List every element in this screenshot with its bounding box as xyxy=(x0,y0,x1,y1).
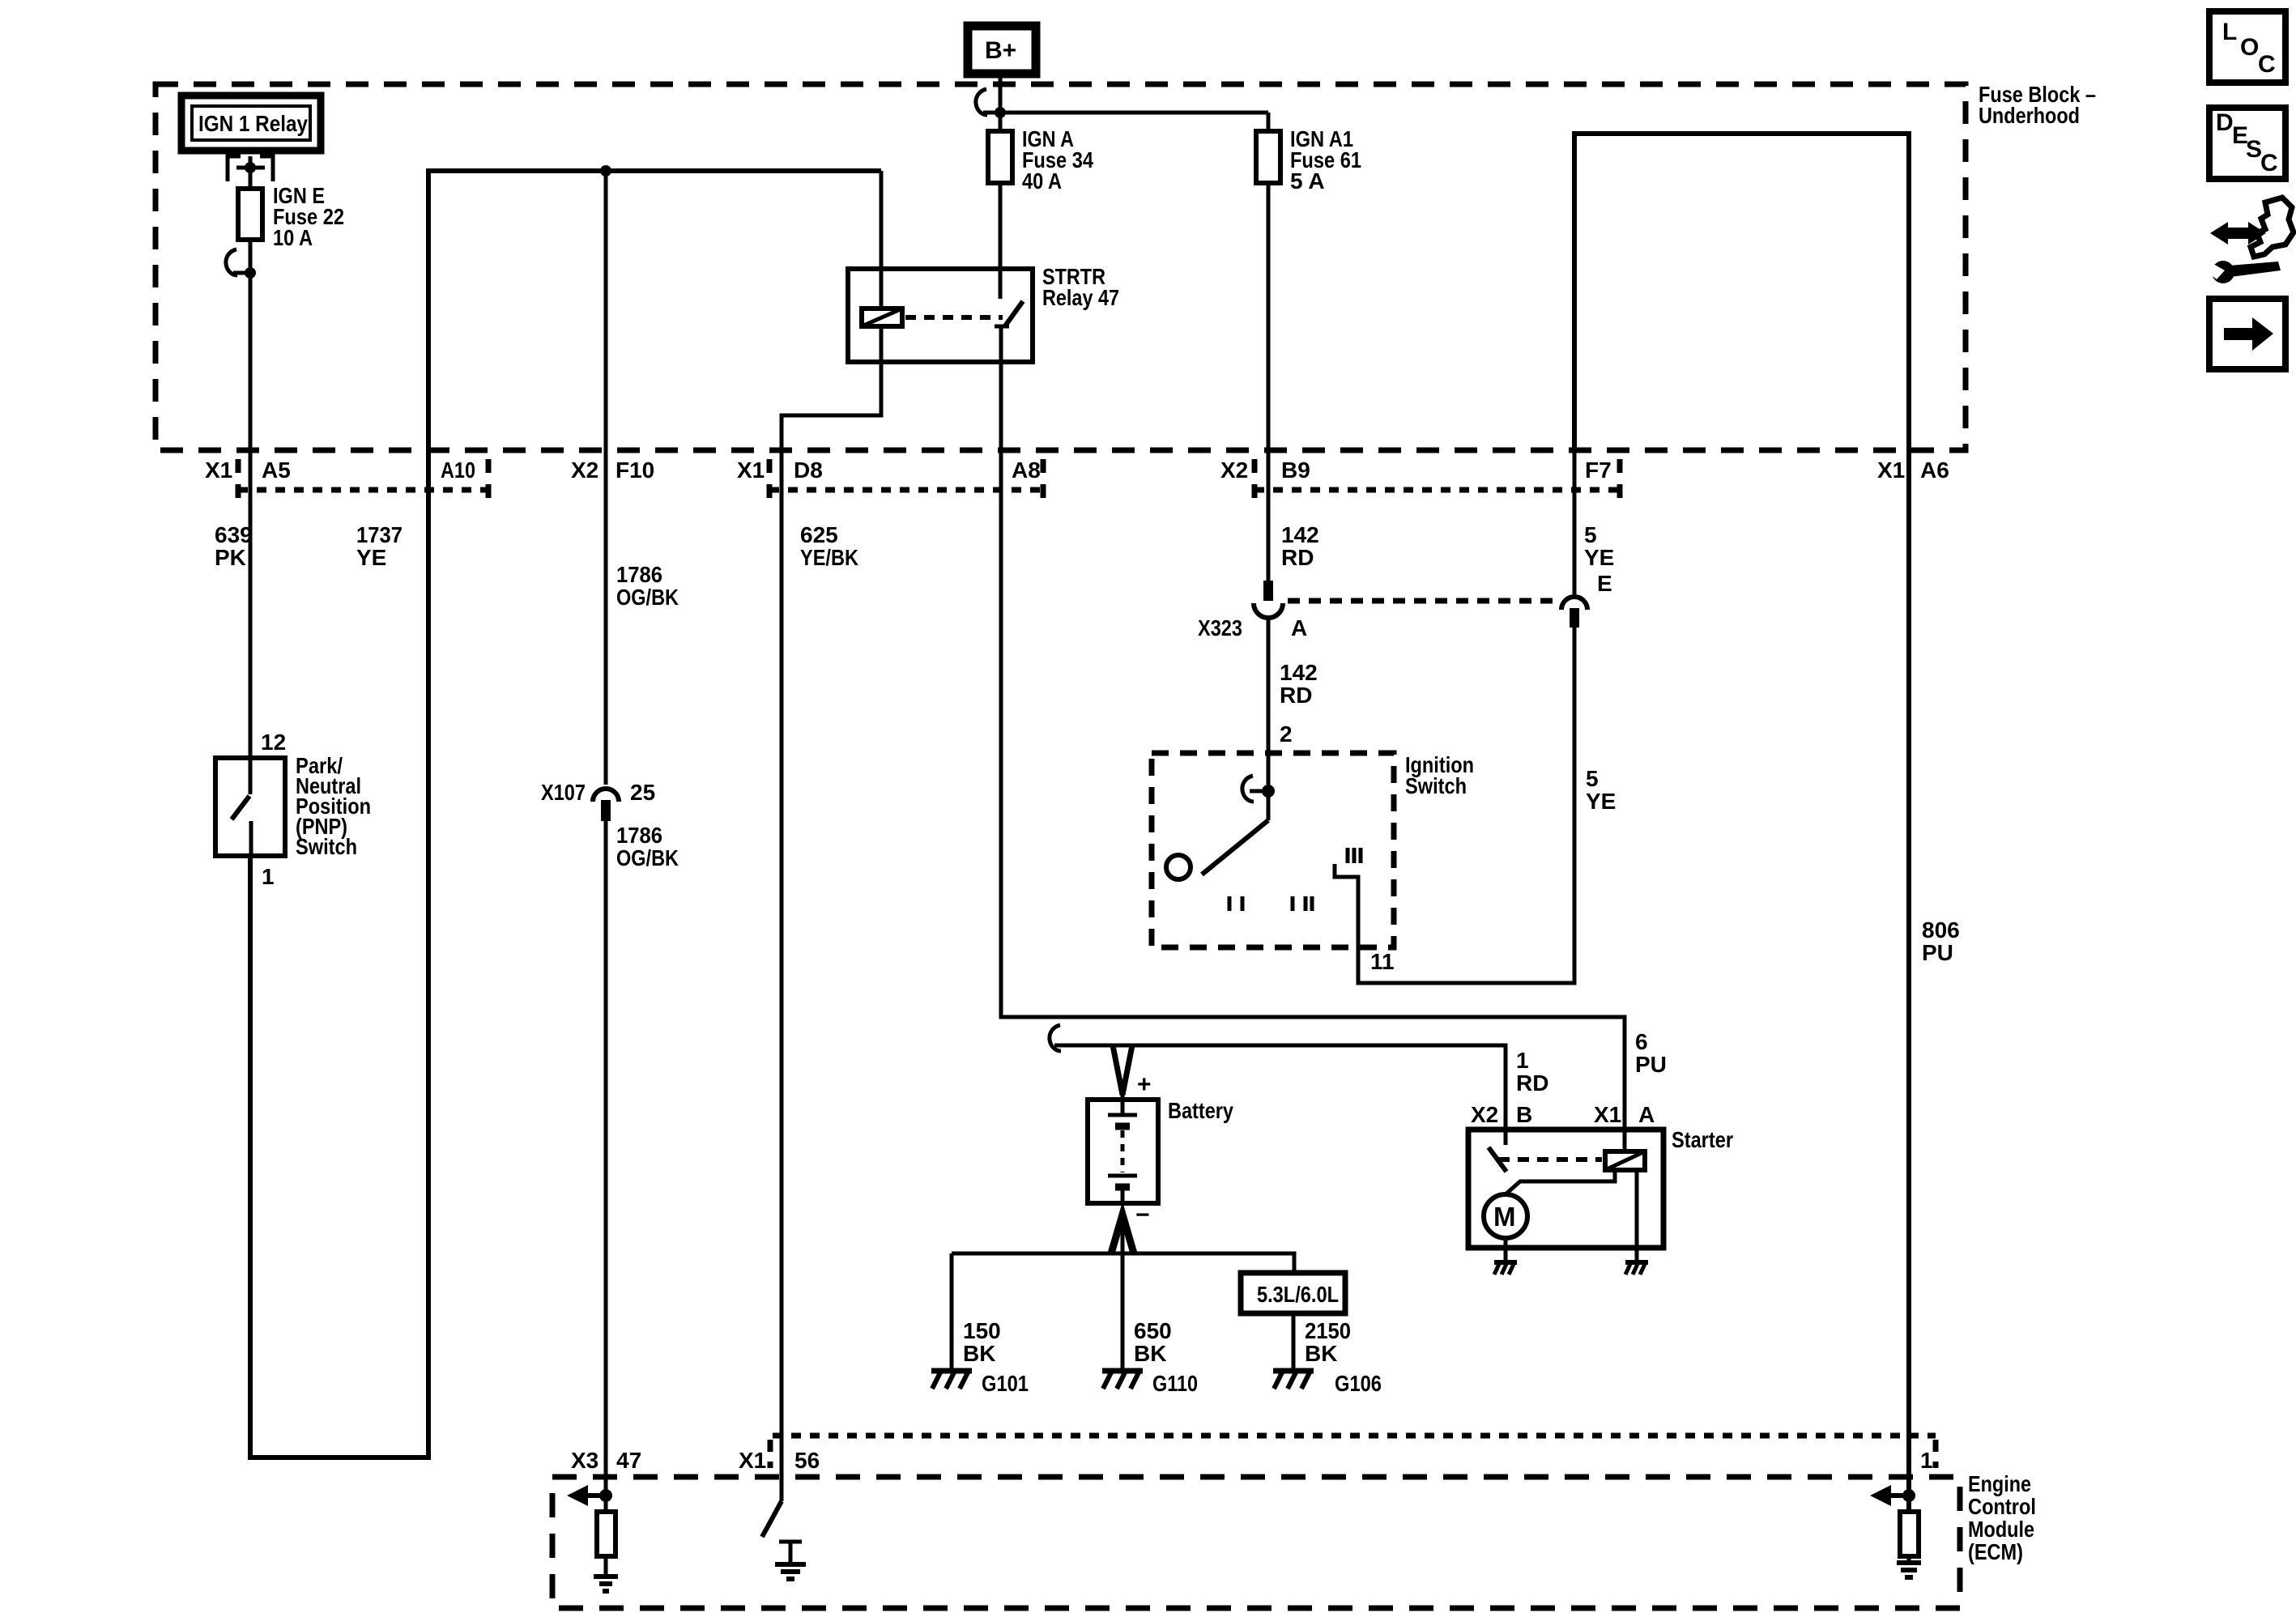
svg-text:Switch: Switch xyxy=(296,834,357,859)
svg-text:D: D xyxy=(2216,109,2234,136)
svg-text:+: + xyxy=(1137,1071,1152,1098)
svg-text:YE: YE xyxy=(1584,545,1614,570)
svg-text:Battery: Battery xyxy=(1168,1098,1233,1123)
svg-text:X2: X2 xyxy=(571,457,598,483)
svg-text:639: 639 xyxy=(215,522,253,547)
svg-text:S: S xyxy=(2246,136,2262,163)
svg-text:1: 1 xyxy=(1516,1048,1529,1073)
svg-text:A: A xyxy=(1291,615,1307,640)
svg-text:5: 5 xyxy=(1586,766,1599,791)
svg-text:Control: Control xyxy=(1968,1494,2036,1519)
svg-text:12: 12 xyxy=(261,730,286,755)
svg-text:X2: X2 xyxy=(1471,1102,1498,1127)
svg-text:1786: 1786 xyxy=(616,823,662,848)
svg-text:E: E xyxy=(1597,571,1612,596)
svg-text:806: 806 xyxy=(1922,917,1960,943)
svg-text:C: C xyxy=(2260,150,2278,177)
svg-text:PU: PU xyxy=(1922,940,1953,965)
svg-text:−: − xyxy=(1135,1202,1150,1228)
svg-text:X1: X1 xyxy=(1594,1102,1621,1127)
svg-text:5 A: 5 A xyxy=(1290,168,1325,194)
svg-text:RD: RD xyxy=(1280,683,1312,708)
svg-text:2: 2 xyxy=(1280,721,1293,747)
svg-text:1786: 1786 xyxy=(616,562,662,587)
svg-text:M: M xyxy=(1493,1202,1516,1232)
svg-text:A5: A5 xyxy=(262,457,291,483)
svg-text:56: 56 xyxy=(794,1448,820,1473)
svg-text:OG/BK: OG/BK xyxy=(616,585,679,610)
svg-text:Engine: Engine xyxy=(1968,1471,2031,1496)
svg-text:OG/BK: OG/BK xyxy=(616,845,679,870)
svg-text:1: 1 xyxy=(1920,1448,1933,1473)
svg-text:(ECM): (ECM) xyxy=(1968,1539,2023,1564)
svg-text:PK: PK xyxy=(215,545,246,570)
svg-text:40 A: 40 A xyxy=(1022,168,1062,194)
svg-text:YE: YE xyxy=(356,545,386,570)
svg-text:Relay 47: Relay 47 xyxy=(1042,285,1119,310)
svg-text:B+: B+ xyxy=(985,37,1016,64)
svg-text:D8: D8 xyxy=(794,457,823,483)
svg-text:G110: G110 xyxy=(1152,1371,1198,1396)
svg-text:A6: A6 xyxy=(1920,457,1949,483)
svg-text:X3: X3 xyxy=(571,1448,598,1473)
svg-text:G101: G101 xyxy=(982,1371,1029,1396)
svg-text:142: 142 xyxy=(1281,522,1319,547)
svg-text:X2: X2 xyxy=(1220,457,1248,483)
svg-text:F10: F10 xyxy=(616,457,654,483)
svg-text:G106: G106 xyxy=(1335,1371,1382,1396)
svg-text:L: L xyxy=(2222,19,2237,45)
svg-text:Underhood: Underhood xyxy=(1979,103,2080,128)
svg-text:1737: 1737 xyxy=(356,522,403,547)
svg-text:BK: BK xyxy=(963,1341,995,1366)
svg-text:O: O xyxy=(2240,34,2259,61)
svg-text:PU: PU xyxy=(1635,1052,1667,1077)
svg-text:Module: Module xyxy=(1968,1517,2034,1542)
svg-text:IGN 1 Relay: IGN 1 Relay xyxy=(198,111,308,136)
svg-text:B: B xyxy=(1516,1102,1532,1127)
svg-text:625: 625 xyxy=(800,522,838,547)
svg-text:C: C xyxy=(2258,51,2276,78)
svg-text:150: 150 xyxy=(963,1318,1001,1343)
svg-text:25: 25 xyxy=(630,780,655,805)
svg-text:RD: RD xyxy=(1516,1070,1548,1096)
svg-text:X1: X1 xyxy=(205,457,232,483)
svg-text:1: 1 xyxy=(262,864,275,889)
svg-text:A10: A10 xyxy=(441,457,475,483)
svg-text:X323: X323 xyxy=(1198,615,1242,640)
svg-text:A8: A8 xyxy=(1012,457,1041,483)
svg-text:142: 142 xyxy=(1280,660,1318,685)
svg-text:5.3L/6.0L: 5.3L/6.0L xyxy=(1257,1282,1339,1307)
svg-text:X1: X1 xyxy=(739,1448,766,1473)
svg-text:Starter: Starter xyxy=(1672,1127,1733,1152)
svg-text:6: 6 xyxy=(1635,1029,1648,1054)
svg-text:A: A xyxy=(1638,1102,1655,1127)
svg-text:47: 47 xyxy=(616,1448,641,1473)
svg-text:BK: BK xyxy=(1305,1341,1337,1366)
svg-text:10 A: 10 A xyxy=(273,225,313,250)
svg-text:F7: F7 xyxy=(1585,457,1612,483)
svg-text:B9: B9 xyxy=(1281,457,1310,483)
svg-text:650: 650 xyxy=(1134,1318,1172,1343)
svg-text:BK: BK xyxy=(1134,1341,1166,1366)
svg-text:5: 5 xyxy=(1584,522,1597,547)
svg-text:2150: 2150 xyxy=(1305,1318,1351,1343)
svg-text:11: 11 xyxy=(1370,949,1395,974)
svg-text:X1: X1 xyxy=(1877,457,1905,483)
svg-text:YE/BK: YE/BK xyxy=(800,545,858,570)
svg-text:X107: X107 xyxy=(541,780,586,805)
svg-text:YE: YE xyxy=(1586,789,1616,814)
svg-text:Switch: Switch xyxy=(1405,773,1467,798)
svg-text:X1: X1 xyxy=(737,457,765,483)
svg-text:RD: RD xyxy=(1281,545,1314,570)
